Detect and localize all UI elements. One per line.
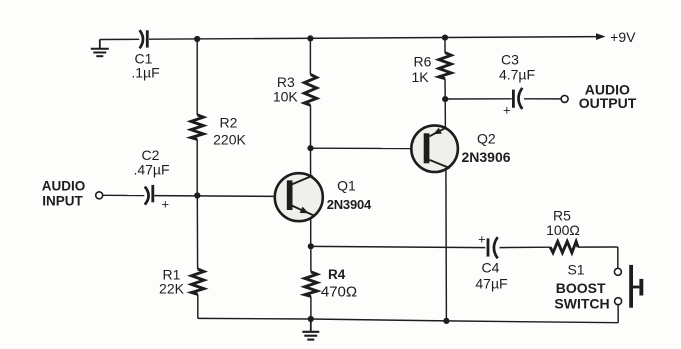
svg-text:100Ω: 100Ω — [546, 222, 580, 238]
svg-text:R4: R4 — [328, 267, 346, 282]
svg-text:+: + — [162, 197, 170, 212]
svg-text:47µF: 47µF — [475, 275, 507, 291]
svg-text:Q1: Q1 — [337, 178, 356, 194]
svg-text:R2: R2 — [220, 115, 238, 131]
svg-text:+: + — [503, 103, 511, 118]
svg-text:S1: S1 — [567, 262, 584, 278]
svg-text:C3: C3 — [501, 51, 519, 67]
svg-text:BOOST: BOOST — [556, 280, 606, 296]
svg-text:OUTPUT: OUTPUT — [579, 95, 637, 111]
svg-text:10K: 10K — [273, 88, 299, 104]
svg-text:2N3904: 2N3904 — [327, 197, 372, 212]
svg-text:AUDIO: AUDIO — [42, 179, 86, 194]
svg-text:R5: R5 — [553, 207, 571, 223]
svg-text:.1µF: .1µF — [131, 65, 159, 81]
svg-text:1K: 1K — [411, 69, 429, 85]
svg-text:470Ω: 470Ω — [321, 284, 357, 301]
svg-text:SWITCH: SWITCH — [554, 296, 609, 312]
svg-text:2N3906: 2N3906 — [461, 149, 510, 165]
svg-text:+: + — [478, 232, 486, 247]
svg-text:INPUT: INPUT — [42, 193, 83, 208]
svg-text:R6: R6 — [414, 53, 432, 69]
svg-text:.47µF: .47µF — [133, 162, 169, 178]
svg-text:220K: 220K — [213, 132, 246, 148]
svg-text:+9V: +9V — [610, 29, 636, 45]
svg-text:Q2: Q2 — [477, 131, 496, 147]
svg-text:C4: C4 — [482, 259, 500, 275]
svg-text:4.7µF: 4.7µF — [499, 67, 535, 83]
svg-text:22K: 22K — [159, 280, 185, 296]
